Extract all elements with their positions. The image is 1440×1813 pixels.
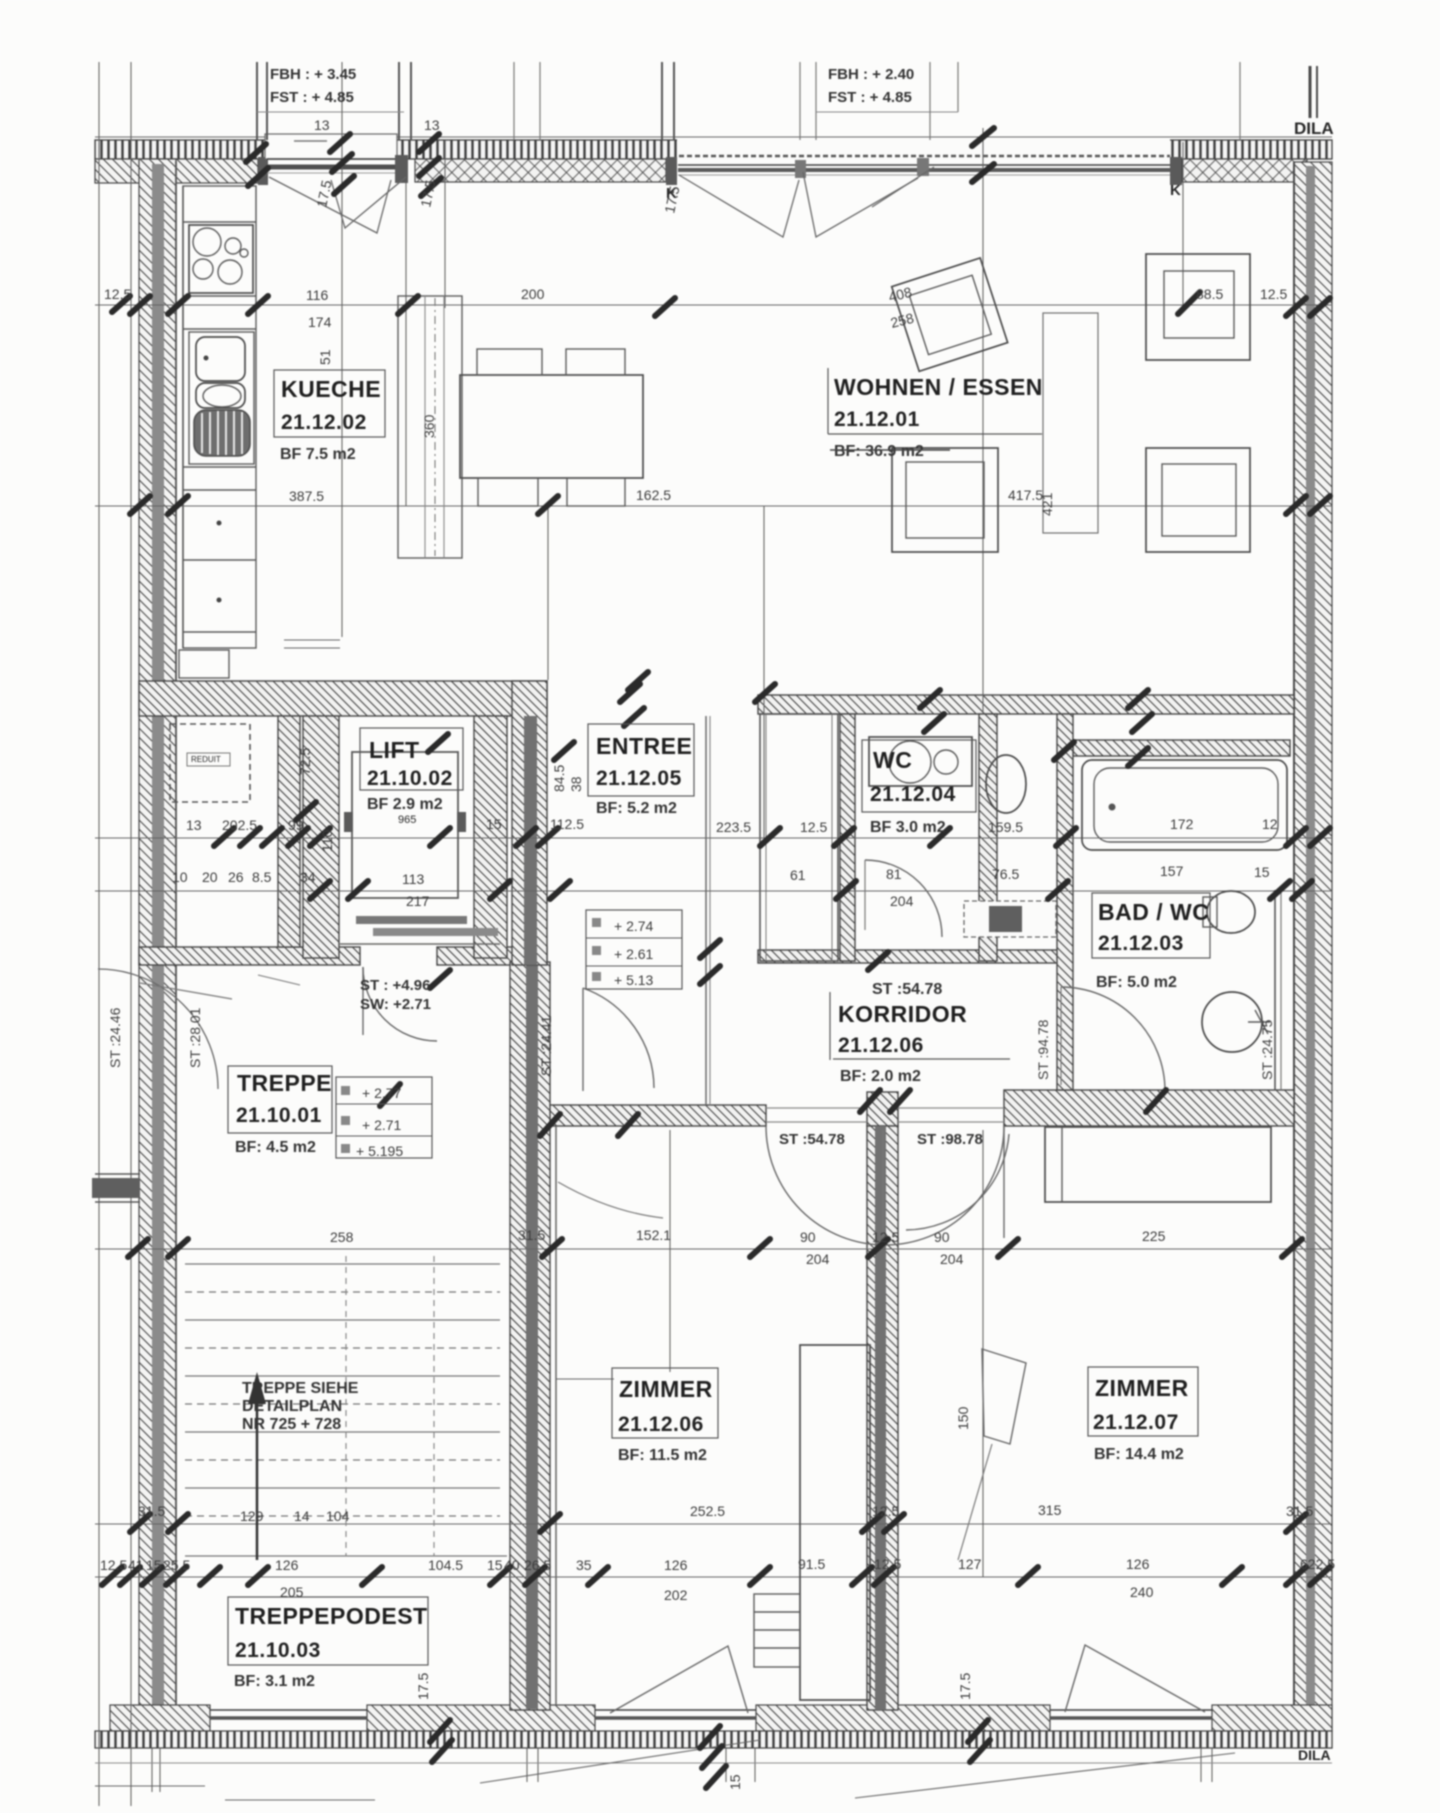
wall left inner face double line: [152, 164, 164, 1706]
door arc bad: [1061, 987, 1165, 1091]
svg-text:13: 13: [424, 117, 440, 133]
interior wall reduit-lift: [278, 716, 300, 947]
svg-text:26: 26: [228, 869, 244, 885]
door triangle zimmer2 bottom: [1065, 1645, 1205, 1712]
svg-text:BF: 5.2 m2: BF: 5.2 m2: [596, 800, 677, 817]
ticks misc mid: [296, 802, 316, 820]
svg-text:40: 40: [504, 1557, 520, 1573]
svg-text:WOHNEN / ESSEN: WOHNEN / ESSEN: [834, 374, 1043, 400]
svg-text:21.12.03: 21.12.03: [1098, 932, 1184, 955]
svg-text:12.5: 12.5: [872, 1503, 899, 1519]
svg-text:ST :98.78: ST :98.78: [917, 1131, 983, 1148]
door arc zimmer2: [906, 1134, 1009, 1230]
svg-text:204: 204: [890, 893, 914, 909]
svg-text:BF: 14.4 m2: BF: 14.4 m2: [1094, 1446, 1184, 1463]
outer wall bottom hatch segment C: [1212, 1705, 1332, 1731]
svg-text:BF: 11.5 m2: BF: 11.5 m2: [618, 1447, 707, 1464]
svg-text:21.10.03: 21.10.03: [235, 1639, 321, 1662]
door arcs korridor double: [766, 1126, 1004, 1245]
extension vertical x983 lower: [982, 1130, 984, 1577]
bad washbasin: [1202, 992, 1262, 1052]
svg-text:ST :28.01: ST :28.01: [187, 1007, 203, 1068]
wall jamb: [395, 155, 408, 183]
ticks lift top wall: [620, 684, 640, 702]
ticks x983 top: [972, 128, 994, 146]
extension vertical x764 entree: [763, 506, 765, 838]
svg-text:25.5: 25.5: [163, 1557, 190, 1573]
svg-text:126: 126: [664, 1557, 688, 1573]
svg-text:12.5: 12.5: [104, 286, 131, 302]
door arc treppe west: [98, 969, 218, 1089]
outer wall left hatched: [139, 159, 176, 1709]
svg-text:BF 3.0 m2: BF 3.0 m2: [870, 819, 946, 836]
bottom diagonal pipe right: [855, 1753, 1235, 1798]
svg-text:159.5: 159.5: [988, 819, 1023, 835]
svg-text:12.5: 12.5: [100, 1557, 127, 1573]
svg-text:21.12.05: 21.12.05: [596, 767, 682, 790]
zimmer1 label leader: [556, 1378, 614, 1380]
interior wall central vertical: [510, 962, 550, 1710]
kitchen bottom marks: [284, 639, 340, 641]
cabinet dots: [217, 521, 222, 526]
svg-text:205: 205: [280, 1584, 304, 1600]
bad right shaft lines: [1274, 890, 1276, 1090]
svg-text:BF: 2.0 m2: BF: 2.0 m2: [840, 1068, 921, 1085]
dimension line y1249: [95, 1248, 1332, 1250]
kitchen dim verticals: [255, 186, 257, 305]
svg-text:10: 10: [172, 869, 188, 885]
interior wall lift block bottom right: [437, 947, 547, 965]
room label bad: [1092, 893, 1210, 958]
svg-text:21.12.06: 21.12.06: [618, 1413, 704, 1436]
wall bottom ladder band: [95, 1731, 1332, 1748]
svg-text:41: 41: [128, 1557, 144, 1573]
ticks x255 top: [246, 144, 266, 162]
room label kueche: [274, 370, 385, 437]
svg-text:90: 90: [934, 1229, 950, 1245]
room label lift: [360, 728, 463, 790]
svg-text:ENTREE: ENTREE: [596, 733, 692, 759]
svg-text:15: 15: [1254, 864, 1270, 880]
interior wall lift-entree vertical: [512, 681, 547, 965]
ticks y1577: [102, 1567, 122, 1585]
zimmer1 left face line: [555, 1126, 557, 1705]
svg-text:162.5: 162.5: [636, 487, 671, 503]
svg-text:15: 15: [486, 816, 502, 832]
svg-text:SW: +2.71: SW: +2.71: [360, 996, 431, 1013]
armchair bottom right: [1146, 448, 1250, 552]
svg-text:225: 225: [1142, 1228, 1166, 1244]
svg-text:104.5: 104.5: [428, 1557, 463, 1573]
interior wall bad left: [1057, 714, 1073, 1090]
room label wohnen: [827, 368, 829, 434]
svg-text:315: 315: [1038, 1502, 1062, 1518]
extension vertical x445: [444, 140, 446, 308]
interior wall zimmer1 top: [547, 1105, 766, 1126]
svg-text:ST :24.75: ST :24.75: [1259, 1019, 1275, 1080]
svg-text:126: 126: [1126, 1556, 1150, 1572]
svg-text:17.5: 17.5: [415, 1673, 431, 1700]
interior wall bad upper: [1073, 740, 1290, 756]
interior wall wc right: [979, 714, 997, 961]
kitchen corner box: [179, 650, 229, 678]
tall cupboard: [398, 296, 462, 558]
interior wall zimmer divider: [867, 1126, 898, 1710]
room label zimmer1: [612, 1368, 718, 1438]
wohnen verticals shelf: [1043, 313, 1098, 533]
svg-text:12.5: 12.5: [800, 819, 827, 835]
wc washbasin: [986, 755, 1026, 813]
svg-text:+ 2.77: + 2.77: [362, 1085, 402, 1101]
svg-text:76.5: 76.5: [992, 866, 1019, 882]
sink dark grill: [194, 410, 250, 456]
svg-text:12.5: 12.5: [874, 1556, 901, 1572]
svg-text:FBH : + 3.45: FBH : + 3.45: [270, 66, 356, 83]
ticks x342 top: [330, 134, 350, 152]
wall top crosshatch segment mid-left: [415, 159, 666, 182]
dimension line y891: [95, 890, 1332, 892]
extension vertical x406 kitchen: [405, 183, 407, 506]
ticks y506: [130, 496, 150, 514]
room label treppepodest: [228, 1597, 428, 1665]
extension verticals below bottom wall: [151, 1748, 153, 1792]
door swing window2 right leaf: [803, 172, 918, 237]
window kitchen glazing: [267, 158, 395, 160]
kitchen counter outline: [183, 186, 256, 648]
svg-text:72.5: 72.5: [297, 748, 313, 775]
sideboard: [892, 448, 998, 552]
svg-text:200: 200: [521, 286, 545, 302]
interior wall lift block top: [139, 681, 547, 716]
room label zimmer2: [1088, 1367, 1198, 1436]
svg-text:WC: WC: [873, 747, 912, 773]
treppe value table: [336, 1077, 432, 1158]
lift shaft wall left: [303, 716, 339, 958]
extension vertical x983 upper: [982, 128, 984, 714]
svg-text:157: 157: [1160, 863, 1184, 879]
svg-text:13: 13: [314, 117, 330, 133]
stair up arrow: [256, 1395, 259, 1560]
svg-text:21.12.02: 21.12.02: [281, 411, 367, 434]
ticks x428 top: [419, 134, 439, 152]
svg-text:202.5: 202.5: [222, 817, 257, 833]
svg-text:TREPPE SIEHE: TREPPE SIEHE: [242, 1380, 359, 1397]
stove: [189, 225, 253, 293]
svg-text:113: 113: [402, 871, 425, 887]
extension vertical x548 dining: [547, 506, 549, 680]
door triangle zimmer1 bottom: [610, 1646, 748, 1713]
svg-text:DETAILPLAN: DETAILPLAN: [242, 1398, 342, 1415]
svg-text:99: 99: [288, 817, 304, 833]
wall top crosshatch segment right: [1182, 159, 1307, 182]
svg-text:127: 127: [958, 1556, 982, 1572]
outer wall bottom left foot: [110, 1705, 210, 1731]
svg-text:417.5: 417.5: [1008, 487, 1043, 503]
svg-text:15: 15: [487, 1557, 503, 1573]
svg-text:FBH : + 2.40: FBH : + 2.40: [828, 66, 914, 83]
svg-text:ST :24.41: ST :24.41: [538, 1015, 554, 1076]
ticks bottom wall: [430, 1720, 450, 1742]
svg-text:BF: 5.0 m2: BF: 5.0 m2: [1096, 974, 1177, 991]
bottom-left horizontal: [95, 1785, 205, 1787]
bad toilet: [1207, 891, 1255, 933]
svg-text:BF: 36.9 m2: BF: 36.9 m2: [834, 443, 924, 460]
svg-text:622.5: 622.5: [1300, 1556, 1335, 1572]
interior wall wc bottom: [758, 950, 1061, 963]
wc cistern and bowl: [869, 737, 972, 786]
svg-text:ZIMMER: ZIMMER: [1095, 1375, 1189, 1401]
shaft next to entree: [760, 714, 838, 961]
svg-text:21.10.02: 21.10.02: [367, 767, 453, 790]
room label wc: [862, 740, 976, 812]
extension lines above top wall: [256, 62, 258, 140]
svg-text:21.12.06: 21.12.06: [838, 1034, 924, 1057]
svg-text:ZIMMER: ZIMMER: [619, 1376, 713, 1402]
svg-text:ST :94.78: ST :94.78: [1035, 1019, 1051, 1080]
svg-text:BF 2.9 m2: BF 2.9 m2: [367, 796, 443, 813]
svg-text:BF 7.5 m2: BF 7.5 m2: [280, 446, 356, 463]
svg-text:21.10.01: 21.10.01: [236, 1104, 322, 1127]
outer wall bottom hatch segment A: [367, 1705, 595, 1731]
svg-text:81: 81: [886, 866, 902, 882]
interior wall wc-bad top: [758, 695, 1294, 714]
svg-text:174: 174: [308, 314, 332, 330]
svg-text:+ 2.74: + 2.74: [614, 918, 654, 934]
interior wall lift block bottom left: [139, 947, 360, 965]
svg-text:202: 202: [664, 1587, 688, 1603]
lift entree wall dark core: [524, 716, 537, 965]
wall jamb: [1170, 157, 1182, 185]
svg-text:204: 204: [940, 1251, 964, 1267]
door swing window2 left leaf: [679, 175, 799, 237]
svg-text:21.12.07: 21.12.07: [1093, 1411, 1179, 1434]
svg-text:DILA: DILA: [1294, 119, 1334, 138]
margin vertical left A: [98, 62, 100, 1806]
svg-text:204: 204: [806, 1251, 830, 1267]
svg-text:12.5: 12.5: [872, 1229, 899, 1245]
lift shaft wall right: [474, 716, 507, 958]
svg-text:+ 2.61: + 2.61: [614, 946, 654, 962]
svg-text:15: 15: [146, 1557, 162, 1573]
margin vertical left B: [130, 62, 132, 1806]
svg-text:ST :54.78: ST :54.78: [872, 981, 942, 998]
svg-text:360: 360: [421, 414, 437, 438]
kitchen boundary x342: [341, 62, 343, 637]
svg-text:88.5: 88.5: [1196, 286, 1223, 302]
svg-text:ST :24.46: ST :24.46: [107, 1007, 123, 1068]
svg-text:217: 217: [406, 893, 430, 909]
bottom wall window sill lines: [210, 1709, 367, 1711]
door arc wc: [865, 860, 942, 937]
armchair rotated: [892, 258, 1008, 371]
svg-text:ST :54.78: ST :54.78: [779, 1131, 845, 1148]
svg-text:+ 2.71: + 2.71: [362, 1117, 402, 1133]
window mullion: [795, 160, 806, 178]
svg-text:387.5: 387.5: [289, 488, 324, 504]
svg-text:38: 38: [568, 776, 584, 792]
svg-text:31.5: 31.5: [1286, 1503, 1313, 1519]
door thresholds zimmer doors: [766, 1107, 867, 1109]
svg-text:21.12.01: 21.12.01: [834, 408, 920, 431]
svg-text:112.5: 112.5: [550, 816, 584, 832]
dimension line y1524: [95, 1523, 1332, 1525]
wall top hatch segment left: [95, 159, 258, 183]
svg-text:172: 172: [1170, 816, 1194, 832]
window kitchen box: [265, 134, 397, 159]
svg-text:LIFT: LIFT: [369, 737, 420, 763]
balcony bracket west: [92, 1178, 140, 1198]
svg-text:34: 34: [300, 869, 316, 885]
window living white: [677, 139, 1170, 160]
bathtub: [1082, 760, 1287, 850]
svg-text:129: 129: [240, 1508, 264, 1524]
svg-text:KUECHE: KUECHE: [281, 376, 381, 402]
svg-text:51: 51: [317, 349, 333, 365]
chair: [567, 478, 625, 506]
svg-text:965: 965: [398, 814, 416, 826]
svg-text:+ 5.13: + 5.13: [614, 972, 654, 988]
svg-text:223.5: 223.5: [716, 819, 751, 835]
svg-text:26.5: 26.5: [524, 1557, 551, 1573]
svg-text:13: 13: [186, 817, 202, 833]
window living dash band: [679, 155, 1170, 158]
stair flight dashed verticals: [345, 1256, 347, 1556]
svg-text:421: 421: [1039, 492, 1055, 516]
svg-text:15: 15: [727, 1774, 743, 1790]
ticks y1249: [128, 1239, 148, 1257]
svg-text:35: 35: [576, 1557, 592, 1573]
chair: [477, 349, 542, 375]
room label korridor: [829, 992, 831, 1060]
ticks y305: [102, 128, 1330, 1788]
entree korridor partition: [705, 716, 707, 1105]
sink unit: [189, 332, 254, 464]
wall jamb: [258, 157, 268, 185]
ticks y1524: [130, 1514, 150, 1532]
lift door mechanism: [356, 916, 467, 924]
window living glazing: [678, 164, 1170, 166]
wardrobe zimmer2: [1045, 1127, 1271, 1202]
svg-text:152.1: 152.1: [636, 1227, 671, 1243]
svg-text:FST : + 4.85: FST : + 4.85: [270, 89, 354, 106]
extension vertical x1183: [1182, 142, 1184, 310]
svg-text:110: 110: [319, 829, 335, 852]
wardrobe zimmer1: [800, 1345, 870, 1700]
reduit dashed: [170, 724, 250, 802]
door arc entree: [583, 988, 654, 1088]
interior wall corridor bottom right: [1004, 1090, 1294, 1126]
svg-text:TREPPE: TREPPE: [237, 1070, 332, 1096]
svg-text:BF: 4.5 m2: BF: 4.5 m2: [235, 1139, 316, 1156]
outer wall bottom hatch segment B: [756, 1705, 1050, 1731]
stair treads: [185, 1264, 507, 1556]
svg-text:258: 258: [330, 1229, 354, 1245]
svg-text:104: 104: [326, 1508, 350, 1524]
svg-text:17.5: 17.5: [957, 1673, 973, 1700]
curtain line zimmer1: [558, 1182, 663, 1218]
svg-text:61: 61: [790, 867, 806, 883]
ticks lift door: [700, 940, 720, 958]
wall top outer face line: [95, 136, 1332, 138]
svg-text:21.12.04: 21.12.04: [870, 783, 956, 806]
dining table: [460, 375, 643, 478]
door arc treppe lobby: [363, 967, 437, 1041]
door swing window2 extra leaf: [872, 167, 934, 207]
svg-text:90: 90: [800, 1229, 816, 1245]
svg-text:150: 150: [955, 1406, 971, 1430]
svg-text:ST : +4.96: ST : +4.96: [360, 977, 430, 994]
ticks y963 right: [868, 952, 888, 970]
svg-text:8.5: 8.5: [252, 869, 272, 885]
outer wall right hatched: [1294, 162, 1332, 1748]
svg-text:14: 14: [294, 1508, 310, 1524]
svg-text:12: 12: [1262, 816, 1278, 832]
interior wall pillar between doors: [867, 1092, 898, 1126]
svg-text:FST : + 4.85: FST : + 4.85: [828, 89, 912, 106]
svg-text:NR 725 + 728: NR 725 + 728: [242, 1416, 341, 1433]
svg-text:BF: 3.1 m2: BF: 3.1 m2: [234, 1673, 315, 1690]
line below bottom wall: [95, 1762, 1332, 1764]
svg-text:31.5: 31.5: [138, 1503, 165, 1519]
dimension line y1577: [95, 1576, 1332, 1578]
extension vertical x670 zimmer1: [669, 1130, 671, 1372]
svg-text:12.5: 12.5: [1260, 286, 1287, 302]
interior wall wc left: [840, 714, 855, 961]
lift car: [352, 752, 458, 898]
svg-text:116: 116: [306, 287, 329, 303]
door swing window1 right leaf: [331, 177, 406, 228]
ladder shelf zimmer1: [754, 1594, 800, 1667]
svg-text:91.5: 91.5: [798, 1556, 825, 1572]
svg-text:240: 240: [1130, 1584, 1154, 1600]
svg-text:TREPPEPODEST: TREPPEPODEST: [235, 1603, 428, 1629]
svg-text:+ 5.195: + 5.195: [356, 1143, 403, 1159]
ticks y891: [310, 881, 330, 899]
wall top ladder band: [95, 140, 1332, 159]
armchair top right: [1146, 254, 1250, 360]
bottom diagonal pipe left: [480, 1740, 760, 1783]
svg-text:252.5: 252.5: [690, 1503, 725, 1519]
door swing window1 left leaf: [269, 177, 391, 233]
dimension line y838: [95, 837, 1332, 839]
svg-text:DILA: DILA: [1298, 1747, 1331, 1763]
svg-text:KORRIDOR: KORRIDOR: [838, 1001, 967, 1027]
svg-text:31.5: 31.5: [518, 1227, 545, 1243]
svg-text:BAD / WC: BAD / WC: [1098, 899, 1209, 925]
chair: [566, 349, 625, 375]
window mullion right: [917, 158, 929, 176]
chair: [478, 478, 538, 506]
door leaf zimmer2 tilted: [982, 1349, 1026, 1444]
room label entree: [588, 724, 694, 796]
svg-text:REDUIT: REDUIT: [191, 755, 221, 764]
wall right inner dark core: [1306, 166, 1315, 1748]
entree value table: [586, 910, 682, 989]
wall jamb: [666, 157, 677, 185]
svg-text:84.5: 84.5: [551, 765, 567, 792]
washing tower dashed: [964, 901, 1056, 937]
svg-text:126: 126: [275, 1557, 299, 1573]
ticks y838: [214, 828, 234, 846]
svg-text:K: K: [1170, 182, 1181, 199]
room label treppe: [228, 1066, 332, 1133]
dimension line y305: [95, 304, 1332, 306]
svg-text:20: 20: [202, 869, 218, 885]
dimension line y506: [95, 505, 1332, 507]
